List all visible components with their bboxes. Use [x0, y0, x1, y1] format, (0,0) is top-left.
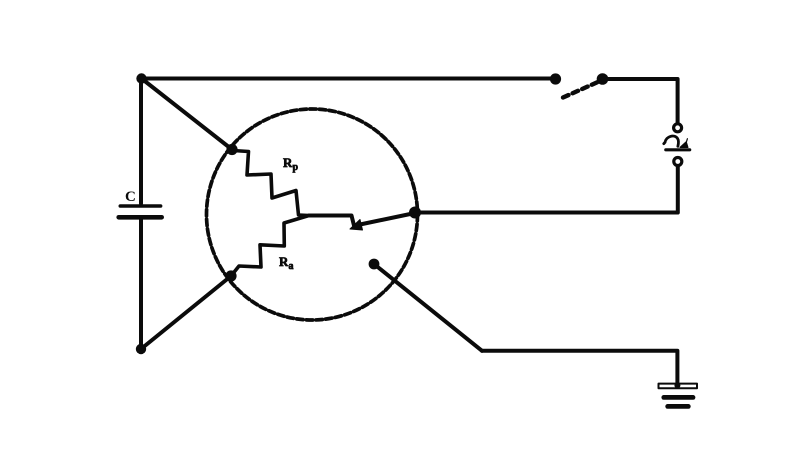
- node D1 (upper-left terminal on circle): [226, 144, 237, 155]
- node D2 (lower-left terminal on circle): [225, 270, 236, 281]
- wire center node stub (horizontal with jog): [309, 216, 354, 226]
- label Rp: [283, 155, 299, 173]
- switch S blade (open, dashed): [563, 82, 599, 98]
- wire top right (switch to right rail corner): [603, 79, 678, 123]
- wire left vertical (node A to capacitor C): [139, 79, 143, 204]
- resistor Ra (zigzag from center node to D2): [231, 216, 309, 277]
- key K lower terminal: [674, 158, 682, 166]
- svg-text:C: C: [125, 189, 136, 205]
- ground middle bar: [664, 395, 693, 400]
- wire right horizontal (node E to right rail): [415, 211, 678, 215]
- wire bottom horizontal (to ground corner): [482, 351, 677, 384]
- ground wire dot: [674, 383, 680, 389]
- wiper arrowhead: [350, 220, 363, 231]
- svg-text:a: a: [289, 261, 294, 272]
- wire diagonal (node F to ground run): [374, 264, 482, 351]
- svg-text:R: R: [279, 254, 289, 269]
- node B (bottom-left terminal): [136, 344, 146, 354]
- svg-text:R: R: [283, 155, 293, 170]
- switch S left contact: [550, 73, 561, 84]
- resistor Rp (zigzag from D1 to center node): [233, 151, 309, 216]
- key K knob (filled wedge): [680, 139, 688, 148]
- node E (right terminal on circle): [409, 207, 421, 219]
- switch S right contact: [597, 73, 609, 85]
- key K upper terminal: [674, 124, 682, 132]
- wire left vertical (capacitor C to node B): [139, 220, 143, 350]
- node F (inner terminal of wiper lead): [369, 259, 380, 270]
- label Ra: [279, 254, 294, 272]
- ground top bar (hollow): [659, 384, 698, 389]
- wire right vertical (key to node E rail): [676, 166, 680, 213]
- wiper arm (diagonal from node E with arrowhead): [360, 213, 415, 225]
- wire diagonal (node A to tube terminal D1): [142, 79, 233, 150]
- svg-text:p: p: [293, 162, 299, 173]
- node A (top-left junction): [136, 73, 146, 83]
- wire diagonal (node B to tube terminal D2): [141, 276, 231, 349]
- key K base bar: [666, 148, 690, 151]
- capacitor C plates: [119, 206, 162, 217]
- ground bottom bar: [668, 404, 689, 409]
- key K lever (squiggle): [664, 136, 679, 146]
- wire top horizontal (node A to switch): [142, 77, 557, 81]
- enclosure dashed circle (element envelope): [207, 109, 418, 320]
